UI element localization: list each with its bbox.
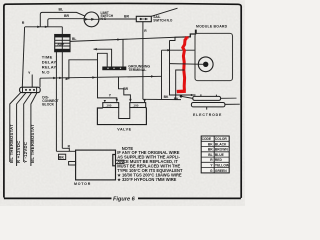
- wire feed to circle: [170, 63, 204, 66]
- svg-text:R +12VDC: R +12VDC: [16, 140, 21, 163]
- note text block: [117, 146, 183, 182]
- svg-text:COLOR: COLOR: [215, 137, 228, 141]
- valve body: [97, 108, 146, 125]
- svg-text:GREEN: GREEN: [215, 169, 227, 173]
- junction arrow W1: [117, 38, 120, 40]
- wire W1 relay to module board: [70, 37, 185, 42]
- svg-text:YELLOW: YELLOW: [215, 164, 230, 168]
- junction arrow H80 d: [151, 75, 154, 77]
- electrode rod 1 pins: [201, 94, 217, 96]
- arrow into coil2: [129, 99, 131, 102]
- electrode lead line 2: [221, 97, 237, 99]
- disconnect label: [42, 96, 58, 107]
- wire V161: [161, 50, 163, 99]
- module board inner box: [195, 33, 233, 80]
- electrode tick: [206, 107, 208, 110]
- wire BR branch: [119, 77, 131, 101]
- color code table: [201, 136, 230, 173]
- red wire top hook: [185, 36, 189, 39]
- limit switch circle: [84, 12, 99, 27]
- grounding terminal bar: [102, 67, 126, 71]
- disconnect dots: [25, 89, 27, 91]
- svg-text:BK: BK: [164, 95, 169, 99]
- note bracket: [113, 155, 116, 166]
- svg-text:BR: BR: [124, 15, 130, 19]
- limit switch arrow b: [91, 18, 95, 21]
- svg-text:ELECTRODE: ELECTRODE: [193, 113, 222, 117]
- svg-text:SWITCH N.O: SWITCH N.O: [153, 18, 173, 22]
- disconnect block: [20, 87, 41, 92]
- module board circle: [198, 57, 213, 72]
- sail switch arrow: [142, 18, 146, 20]
- wire R horizontal: [25, 26, 62, 28]
- valve coil 2: [130, 103, 146, 108]
- wire L60 loop: [69, 60, 98, 79]
- svg-text:Figure 6: Figure 6: [113, 196, 136, 202]
- red wire foot: [177, 89, 186, 93]
- junction arrow H80 b: [59, 77, 62, 79]
- svg-text:MOTOR: MOTOR: [74, 182, 91, 186]
- junction arrow bracket A: [93, 48, 96, 50]
- wire H50 into board: [162, 49, 196, 51]
- wire BR: [48, 19, 84, 27]
- valve coil 1: [103, 103, 119, 108]
- svg-text:AMP: AMP: [57, 43, 64, 47]
- svg-text:MODULE BOARD: MODULE BOARD: [196, 25, 228, 29]
- lead wire 4: [31, 93, 37, 166]
- wire Y stub: [31, 75, 33, 88]
- wire R riser to disconnect block: [22, 27, 24, 87]
- module board circle dot: [203, 62, 208, 67]
- junction arrow 1: [37, 26, 40, 28]
- svg-text:BROWN: BROWN: [215, 148, 228, 152]
- valve coil 2 right pin riser: [144, 99, 146, 102]
- svg-text:BLOCK: BLOCK: [42, 103, 54, 107]
- wire link dot to rod: [181, 96, 193, 98]
- wire H80 horizontal: [40, 76, 162, 78]
- svg-text:BR: BR: [64, 14, 70, 18]
- grounding terminal label: [128, 64, 150, 72]
- svg-text:RED: RED: [215, 158, 223, 162]
- svg-text:BK: BK: [59, 156, 64, 160]
- svg-text:BK: BK: [174, 97, 179, 101]
- sail switch dot: [140, 18, 142, 20]
- junction arrow H80 e: [66, 78, 69, 80]
- border frame: [4, 3, 241, 198]
- wire BL: [40, 12, 85, 26]
- limit switch label: [101, 11, 114, 21]
- svg-text:VALVE: VALVE: [117, 128, 131, 132]
- svg-text:G: G: [210, 169, 213, 173]
- svg-text:BR: BR: [123, 87, 128, 91]
- electrode lead line: [225, 103, 240, 105]
- svg-text:Y -12VDC: Y -12VDC: [23, 142, 28, 163]
- module board bottom dot: [191, 94, 193, 96]
- wire grounding bracket A: [94, 49, 112, 66]
- module board top step: [185, 34, 196, 37]
- electrode rod 1: [193, 96, 221, 100]
- svg-text:BL: BL: [208, 153, 212, 157]
- svg-text:★ 320°F HYPOLON 7MM WIRE: ★ 320°F HYPOLON 7MM WIRE: [117, 177, 176, 182]
- svg-text:.100: .100: [106, 104, 112, 108]
- wire sail drop: [142, 22, 144, 100]
- junction arrow 2: [45, 26, 48, 28]
- limit switch arrow a: [85, 18, 89, 21]
- svg-text:BL: BL: [72, 37, 76, 41]
- svg-text:.100: .100: [133, 104, 139, 108]
- lead wire 1: [10, 93, 21, 162]
- wire relay through vertical: [61, 27, 63, 149]
- svg-text:BK: BK: [208, 142, 213, 146]
- svg-text:BL THERMOSTAT: BL THERMOSTAT: [30, 124, 35, 163]
- wire V123 W1 to bar: [122, 39, 124, 66]
- motor tab left: [69, 162, 76, 166]
- relay label: [42, 54, 57, 74]
- junction arrow H80 a: [53, 77, 56, 79]
- module board bold stub: [195, 30, 197, 34]
- junction arrow H80 c: [92, 76, 95, 78]
- wire Y branch: [98, 78, 117, 102]
- junction arrow H50: [167, 49, 170, 51]
- svg-text:BL THERMOSTAT: BL THERMOSTAT: [9, 124, 14, 163]
- svg-text:N.O: N.O: [42, 69, 50, 74]
- svg-text:CODE: CODE: [202, 137, 212, 141]
- valve coil 1 left pin: [104, 100, 106, 102]
- lead wire 2: [17, 93, 26, 166]
- svg-text:BR: BR: [208, 148, 213, 152]
- wire motor feed b: [62, 148, 69, 151]
- sail switch label: [153, 15, 173, 22]
- wire relay left vertical: [55, 52, 57, 152]
- motor connector box: [59, 154, 66, 159]
- arrow into coil1: [116, 99, 118, 102]
- wire black L to electrode: [176, 70, 185, 100]
- svg-text:BLUE: BLUE: [215, 153, 225, 157]
- sail switch box: [136, 16, 151, 21]
- motor tab right: [116, 160, 124, 163]
- wire limit to sail: [99, 18, 137, 20]
- wire BK valve to electrode junction: [143, 98, 181, 100]
- wire motor feed a: [56, 150, 75, 152]
- module board left edge: [170, 41, 196, 96]
- time delay relay box: [55, 35, 70, 52]
- wire H80 drop to disconnect: [39, 78, 41, 87]
- motor body: [76, 150, 116, 180]
- valve notch: [119, 108, 130, 119]
- svg-text:R: R: [22, 21, 25, 25]
- limit switch contact line: [84, 18, 99, 20]
- svg-text:TERMINAL: TERMINAL: [128, 68, 147, 72]
- wire grounding bracket B: [98, 53, 108, 77]
- svg-text:BLACK: BLACK: [215, 142, 227, 146]
- red high tension wire: [183, 38, 187, 90]
- module board top-left notch: [170, 37, 185, 40]
- sail switch blade: [151, 8, 177, 16]
- electrode rod 2: [191, 103, 225, 107]
- lead wire 3: [24, 93, 32, 162]
- electrode connector dot: [180, 95, 183, 98]
